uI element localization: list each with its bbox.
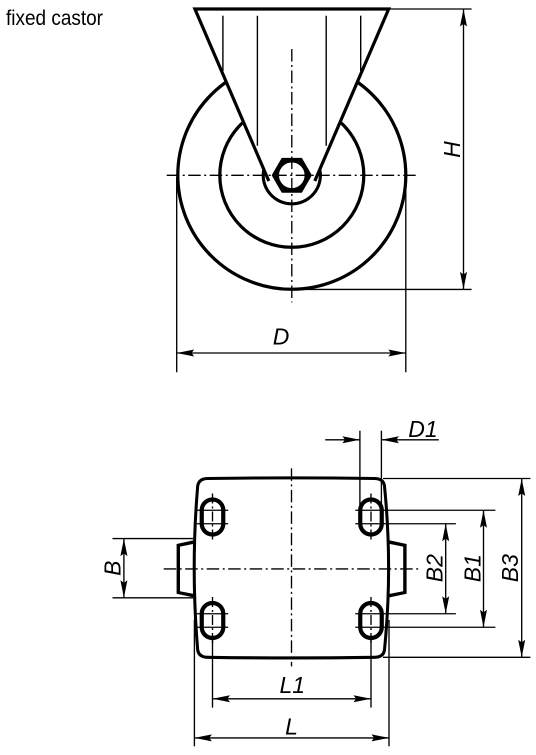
slot hole bottom-left bbox=[202, 603, 224, 638]
dimension B2 line with arrows bbox=[445, 524, 447, 614]
dimension D extension line left bbox=[176, 177, 178, 372]
mounting plate outline bbox=[194, 478, 388, 658]
svg-text:L: L bbox=[285, 714, 298, 740]
fork inner line 2 bbox=[256, 16, 258, 146]
fork inner line 1 bbox=[222, 16, 224, 71]
dimension L line with arrows bbox=[194, 737, 389, 739]
fork bottom U arc bbox=[263, 170, 320, 204]
svg-text:L1: L1 bbox=[280, 672, 306, 698]
slot hole top-right bbox=[360, 500, 382, 535]
right fork leg protrusion bbox=[385, 539, 407, 598]
dimension L1 line with arrows bbox=[213, 698, 372, 700]
dimension B1 line with arrows bbox=[483, 510, 485, 627]
dimension H extension line bottom bbox=[292, 288, 472, 290]
svg-text:D1: D1 bbox=[408, 416, 437, 442]
fork mask (white fill hides circles behind fork) bbox=[195, 9, 389, 204]
slot centerlines top-right bbox=[355, 494, 495, 541]
fork inner line 4 bbox=[360, 16, 362, 71]
dimension D line with arrows bbox=[177, 352, 406, 354]
svg-text:H: H bbox=[439, 141, 465, 158]
svg-text:D: D bbox=[273, 324, 290, 350]
wheel vertical centerline bbox=[291, 49, 293, 302]
slot centerlines bottom-left bbox=[197, 597, 228, 644]
svg-text:B3: B3 bbox=[497, 554, 523, 582]
svg-text:B2: B2 bbox=[422, 554, 448, 582]
dimension L extension lines bbox=[193, 620, 195, 746]
dimension D1 extension lines bbox=[359, 431, 361, 505]
axle bolt circle bbox=[277, 161, 306, 190]
fork outline bbox=[195, 9, 389, 181]
wheel inner circle bbox=[220, 103, 364, 247]
dimension B line with arrows bbox=[123, 539, 125, 598]
slot hole bottom-right bbox=[360, 603, 382, 638]
wheel horizontal centerline bbox=[167, 174, 419, 176]
dimension B3 extension lines bbox=[383, 478, 530, 480]
dimension B3 line with arrows bbox=[521, 479, 523, 658]
slot centerlines top-left bbox=[197, 494, 228, 541]
dimension H line with arrows bbox=[463, 9, 465, 289]
dimension B extension lines (left) bbox=[113, 538, 194, 540]
dimension D1 line with inward arrows bbox=[325, 439, 360, 441]
dimension D extension line right bbox=[405, 177, 407, 372]
plate horizontal centerline bbox=[164, 568, 419, 570]
svg-text:fixed castor: fixed castor bbox=[6, 7, 103, 30]
hex nut bbox=[274, 160, 310, 191]
svg-text:B1: B1 bbox=[460, 554, 486, 582]
dimension H extension line top bbox=[390, 8, 472, 10]
slot hole top-left bbox=[202, 500, 224, 535]
dimension L1 extension lines bbox=[212, 640, 214, 708]
svg-text:B: B bbox=[100, 561, 126, 576]
slot centerlines bottom-right bbox=[355, 597, 495, 644]
left fork leg protrusion bbox=[177, 539, 198, 598]
plate vertical centerline bbox=[291, 468, 293, 666]
fork inner line 3 bbox=[325, 16, 327, 146]
wheel outer circle D bbox=[178, 61, 406, 289]
